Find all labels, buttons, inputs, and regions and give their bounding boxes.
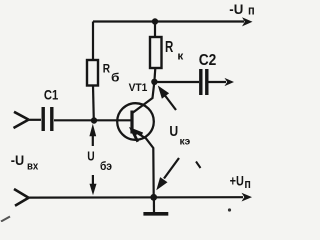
scan artifact marks — [196, 162, 201, 169]
svg-text:U: U — [169, 123, 178, 140]
wire: Rб to base junction — [92, 86, 95, 121]
node: top rail / Rк junction — [152, 18, 158, 24]
svg-text:б: б — [111, 70, 120, 84]
node: collector junction — [151, 79, 157, 85]
svg-text:п: п — [248, 3, 255, 18]
svg-text:бэ: бэ — [100, 161, 112, 173]
ground — [143, 197, 168, 214]
capacitor C2 — [201, 69, 207, 95]
input terminal (bottom chevron) — [14, 189, 29, 206]
wire: top supply rail — [93, 20, 244, 22]
svg-text:п: п — [244, 176, 251, 191]
svg-text:вх: вх — [27, 161, 39, 173]
dimension arrow Uбэ (upper, points up to base wire) — [92, 134, 94, 146]
svg-text:C2: C2 — [199, 52, 217, 69]
input terminal (top chevron) — [14, 112, 29, 128]
svg-text:VT1: VT1 — [129, 82, 148, 94]
svg-text:-U: -U — [229, 2, 243, 17]
annotation arrow to emitter node (Uкэ lower) — [164, 158, 179, 179]
svg-text:U: U — [87, 148, 94, 163]
svg-text:+U: +U — [230, 174, 244, 189]
wire: collector node to C2 — [154, 81, 199, 83]
arrowhead of top rail — [242, 17, 253, 26]
svg-text:к: к — [177, 51, 183, 63]
dimension arrow Uбэ (lower, points down to rail) — [92, 175, 94, 188]
svg-text:R: R — [165, 39, 173, 56]
svg-text:кэ: кэ — [180, 136, 191, 147]
node: base junction — [91, 117, 97, 123]
wire: C2 output with arrow — [209, 81, 227, 83]
wire: bottom supply rail — [29, 196, 243, 199]
resistor Rк — [150, 22, 162, 82]
wire: rail drop to Rб — [92, 22, 94, 61]
svg-text:-U: -U — [11, 153, 24, 168]
arrowhead of bottom rail — [242, 193, 253, 202]
svg-text:R: R — [103, 64, 111, 76]
annotation arrow to collector node (Uкэ upper) — [165, 96, 176, 111]
transistor VT1 — [117, 83, 154, 197]
capacitor C1 — [43, 107, 52, 131]
svg-text:C1: C1 — [44, 86, 59, 102]
node: emitter / rail junction — [150, 194, 157, 201]
resistor Rб — [87, 60, 98, 86]
wire: C1 to base — [54, 119, 131, 121]
wire: input to C1 — [29, 119, 41, 121]
